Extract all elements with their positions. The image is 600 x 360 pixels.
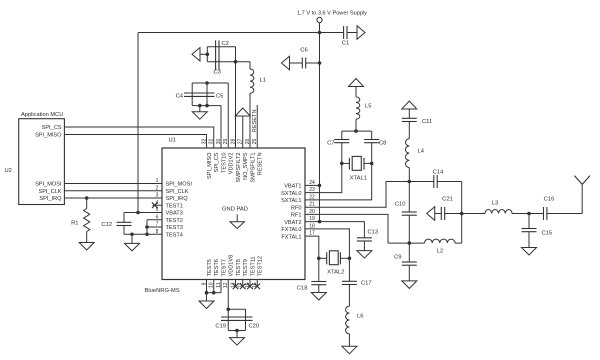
svg-text:C21: C21 [442, 197, 453, 203]
ground C13 [363, 241, 365, 251]
wire FXTAL0 pin18 [305, 229, 349, 258]
crystal XTAL1 [342, 162, 350, 164]
capacitor C6 [282, 56, 290, 70]
wire pins 6-7-8 tie [146, 220, 148, 235]
svg-text:U1: U1 [169, 138, 176, 144]
svg-text:28: 28 [230, 139, 236, 145]
capacitor C2 C3 plates [215, 40, 217, 70]
junction antenna tap [460, 212, 464, 216]
svg-text:C14: C14 [433, 170, 444, 176]
wire top power rail [138, 32, 320, 34]
inductor L6 [348, 285, 350, 307]
ground TEST pins bottom [206, 293, 208, 301]
wire FXTAL1 pin17 [305, 236, 319, 258]
svg-text:L5: L5 [365, 104, 371, 110]
svg-text:R1: R1 [71, 221, 78, 227]
ground C12 TEST pins [131, 234, 133, 243]
svg-text:SXTAL1: SXTAL1 [281, 198, 301, 204]
svg-text:C13: C13 [368, 230, 379, 236]
junction XTAL2 left [317, 257, 321, 261]
antenna ANT [581, 184, 583, 213]
svg-text:VDD1V8: VDD1V8 [229, 255, 235, 277]
junction C3-pin28 [234, 60, 238, 64]
wire SXTAL1 pin22 [305, 163, 372, 200]
svg-text:C8: C8 [379, 141, 386, 147]
junction C4C5 ground [198, 104, 202, 108]
capacitor C5 [206, 83, 208, 106]
svg-text:SPI_IRQ: SPI_IRQ [39, 196, 62, 202]
ground C15 [528, 232, 530, 248]
wire VBAT1 pin24 [305, 184, 320, 186]
MCU U2 box [19, 119, 65, 205]
wire SPI_MOSI [64, 183, 162, 185]
svg-text:VBAT2: VBAT2 [284, 220, 301, 226]
wire C4C5 top [192, 82, 228, 84]
wire pins 9-10-11 tie [207, 292, 222, 294]
svg-text:C7: C7 [327, 141, 334, 147]
svg-text:TEST8: TEST8 [236, 259, 242, 276]
svg-text:C1: C1 [342, 41, 349, 47]
svg-text:31: 31 [209, 139, 215, 145]
svg-text:RESETN: RESETN [258, 153, 264, 176]
capacitor C7 [341, 131, 343, 139]
capacitor C16 [543, 207, 545, 220]
svg-text:U2: U2 [5, 168, 12, 174]
ground C9 [408, 265, 410, 281]
junction R1-SPI_IRQ [85, 196, 89, 200]
svg-text:SPI_CLK: SPI_CLK [166, 189, 189, 195]
inductor L1 [249, 62, 251, 69]
svg-text:C6: C6 [300, 48, 307, 54]
svg-text:C4: C4 [176, 94, 184, 100]
svg-text:26: 26 [245, 139, 251, 145]
svg-text:L4: L4 [418, 149, 425, 155]
wire C4C5 bottom [192, 105, 221, 107]
junction pin10 ground [212, 291, 216, 295]
svg-text:Application MCU: Application MCU [21, 112, 63, 118]
inductor L4 [408, 122, 410, 139]
junction C12 ground [130, 232, 134, 236]
wire SXTAL0 pin23 [305, 163, 342, 192]
svg-text:C15: C15 [542, 231, 553, 237]
wire VBAT2 pin19 to C13 [305, 222, 364, 238]
power arrow VBAT right [357, 26, 365, 40]
capacitor C14 [433, 175, 435, 188]
svg-text:SPI_CS: SPI_CS [214, 152, 220, 172]
capacitor C11 [408, 109, 410, 118]
svg-text:TEST5: TEST5 [207, 259, 213, 276]
svg-text:TEST3: TEST3 [166, 225, 183, 231]
capacitor C19 [227, 309, 229, 330]
svg-text:27: 27 [238, 139, 244, 145]
svg-text:C12: C12 [101, 222, 112, 228]
capacitor C4 [191, 83, 193, 106]
capacitor C21 [427, 207, 435, 221]
wire balun right vertical [461, 182, 463, 244]
svg-text:29: 29 [223, 139, 229, 145]
wire VBAT right vertical [319, 33, 321, 222]
svg-text:RF0: RF0 [291, 205, 302, 211]
svg-text:C9: C9 [394, 255, 401, 261]
svg-text:3: 3 [156, 193, 159, 199]
svg-text:TEST4: TEST4 [166, 232, 183, 238]
capacitor C18 [318, 258, 320, 281]
wire TEST7 pin11 [220, 280, 222, 293]
pin 16 stub with X [256, 280, 258, 287]
svg-text:L2: L2 [437, 249, 443, 255]
wire C19 C20 bottom [228, 330, 245, 332]
wire SMPSFILT2 pin28 [235, 47, 237, 148]
capacitor C12 [123, 213, 125, 223]
crystal XTAL2 [319, 257, 327, 259]
wire TEST10 pin30 [220, 106, 222, 148]
svg-text:C20: C20 [249, 324, 260, 330]
svg-text:VBAT3: VBAT3 [166, 211, 183, 217]
junction C9 tap [408, 241, 412, 245]
wire RF1 pin20 [305, 214, 388, 243]
op-amp U1 BlueNRG-MS body [162, 148, 305, 280]
svg-text:L3: L3 [492, 201, 498, 207]
ground L6 [342, 346, 357, 354]
junction C6-VBAT [318, 61, 322, 65]
svg-text:C19: C19 [215, 324, 226, 330]
svg-text:XTAL2: XTAL2 [327, 270, 344, 276]
svg-text:FXTAL1: FXTAL1 [281, 234, 301, 240]
svg-text:TEST9: TEST9 [243, 259, 249, 276]
svg-text:C2: C2 [222, 41, 229, 47]
svg-text:SPI_MOSI: SPI_MOSI [166, 182, 193, 188]
wire TEST4 pin8 and C12 bottom [124, 233, 162, 235]
svg-text:SPI_CLK: SPI_CLK [38, 189, 61, 195]
ground R1 [79, 243, 94, 251]
ground C19 C20 [236, 331, 238, 338]
junction VBAT3 [136, 211, 140, 215]
wire SPI_CS [64, 127, 213, 148]
svg-text:RF1: RF1 [291, 213, 302, 219]
svg-text:FXTAL0: FXTAL0 [281, 227, 301, 233]
capacitor C10 [408, 182, 410, 213]
inductor L2 [425, 239, 455, 243]
junction C19C20 ground [235, 329, 239, 333]
wire VDD1V8 pin12 [227, 280, 229, 310]
junction C15 tap [527, 212, 531, 216]
junction pin9 ground [205, 291, 209, 295]
svg-text:2: 2 [156, 185, 159, 191]
ground C4C5 [199, 106, 201, 112]
node VBAT supply terminal [317, 17, 322, 22]
power arrow VBAT C2C3 [192, 48, 200, 62]
capacitor C9 [408, 243, 410, 262]
wire balun bottom [388, 242, 425, 244]
wire TEST3 pin7 [147, 226, 162, 228]
wire TEST5 pin9 [206, 280, 208, 293]
svg-text:C17: C17 [361, 281, 372, 287]
svg-text:L6: L6 [357, 314, 363, 320]
capacitor C20 [245, 309, 247, 330]
wire C2C3 left node [206, 47, 208, 62]
wire SPI_CLK [64, 190, 162, 192]
wire antenna line [462, 213, 485, 215]
svg-text:SXTAL0: SXTAL0 [281, 191, 301, 197]
ground C18 [318, 285, 320, 293]
junction pin8 tie [145, 232, 149, 236]
svg-text:VBAT1: VBAT1 [284, 184, 301, 190]
svg-text:GND PAD: GND PAD [222, 207, 248, 213]
junction C5 top [205, 81, 209, 85]
svg-text:TEST7: TEST7 [221, 259, 227, 276]
pin 14 stub with X [242, 280, 244, 287]
svg-text:SPI_MISO: SPI_MISO [207, 152, 213, 179]
wire TEST2 pin6 [147, 219, 162, 221]
svg-text:SPI_MISO: SPI_MISO [35, 133, 62, 139]
junction XTAL1 left [340, 162, 344, 166]
wire XTAL1 top [342, 130, 372, 132]
svg-text:SMPSFILT1: SMPSFILT1 [250, 153, 256, 183]
svg-text:C10: C10 [395, 202, 406, 208]
svg-text:SPI_MOSI: SPI_MOSI [35, 182, 62, 188]
wire SPI_MISO [64, 135, 206, 149]
wire C2 top [207, 46, 235, 48]
wire RF0 pin21 [305, 182, 386, 208]
capacitor C19 C20 plates [221, 316, 253, 318]
junction VBAT2 [318, 220, 322, 224]
svg-text:TEST10: TEST10 [221, 153, 227, 174]
pin 13 stub with X [235, 280, 237, 287]
capacitor C4 C5 plates [184, 92, 215, 94]
svg-text:TEST1: TEST1 [166, 203, 183, 209]
capacitor C13 [357, 237, 372, 239]
inductor L5 [355, 87, 357, 98]
wire VBAT3 pin5 [124, 212, 162, 214]
pin 15 stub with X [249, 280, 251, 287]
capacitor C1 [320, 32, 344, 34]
svg-text:SPI_IRQ: SPI_IRQ [166, 196, 189, 202]
svg-text:TEST12: TEST12 [258, 256, 264, 277]
svg-text:32: 32 [201, 139, 207, 145]
svg-text:XTAL1: XTAL1 [350, 176, 367, 182]
svg-text:25: 25 [252, 139, 258, 145]
svg-text:TEST11: TEST11 [250, 256, 256, 276]
wire VBAT3 left vertical [137, 33, 139, 213]
svg-text:30: 30 [216, 139, 222, 145]
svg-text:SMPSFILT2: SMPSFILT2 [236, 153, 242, 183]
power arrow C11 [402, 101, 417, 109]
junction pin7 tie [145, 225, 149, 229]
junction C5 bottom [205, 104, 209, 108]
wire VDD1V2 pin29 [227, 83, 229, 148]
svg-text:C18: C18 [297, 286, 308, 292]
wire C19 C20 top [228, 308, 245, 310]
svg-text:C11: C11 [422, 119, 432, 125]
wire TEST6 pin10 [213, 280, 215, 293]
svg-text:1: 1 [156, 178, 159, 184]
junction XTAL2 right [348, 257, 352, 261]
svg-text:TEST6: TEST6 [214, 259, 220, 276]
junction C19 top [226, 308, 230, 312]
svg-text:VDD1V2: VDD1V2 [229, 153, 235, 175]
capacitor C15 [528, 214, 530, 229]
junction supply rail [318, 31, 322, 35]
ground GND PAD symbol [236, 214, 238, 221]
svg-text:BlueNRG-MS: BlueNRG-MS [145, 288, 180, 294]
capacitor C8 [371, 131, 373, 139]
pin 4 TEST1 stub with X [153, 204, 163, 206]
wire C3 bottom [207, 61, 250, 63]
junction C2C3 left [206, 53, 210, 57]
capacitor C17 [348, 258, 350, 281]
svg-text:1,7 V to 3,6 V Power Supply: 1,7 V to 3,6 V Power Supply [297, 11, 367, 17]
power arrow NO_SMPS pin27 [235, 108, 250, 116]
svg-text:RESETN: RESETN [252, 110, 258, 133]
svg-text:C3: C3 [214, 70, 221, 76]
junction VBAT1 [318, 184, 322, 188]
svg-text:SPI_CS: SPI_CS [42, 125, 62, 131]
inductor L3 [485, 210, 512, 214]
junction L4 top node [408, 180, 412, 184]
junction XTAL1 right [370, 162, 374, 166]
svg-text:C16: C16 [544, 197, 555, 203]
power arrow L5 [349, 79, 364, 87]
svg-text:TEST2: TEST2 [166, 218, 183, 224]
wire RESETN pin25 [256, 105, 258, 148]
wire SPI_IRQ [64, 197, 162, 199]
wire balun top [386, 181, 434, 183]
junction L5-XTAL1 [354, 129, 358, 133]
svg-text:L1: L1 [260, 78, 266, 84]
svg-text:NO_SMPS: NO_SMPS [243, 152, 249, 180]
resistor R1 [86, 198, 88, 209]
svg-text:C5: C5 [216, 94, 223, 100]
